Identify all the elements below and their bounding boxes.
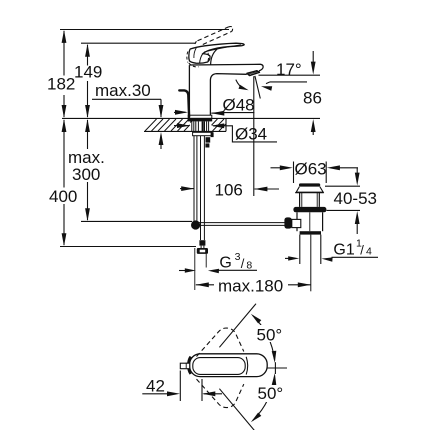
svg-text:Ø63: Ø63 (295, 159, 327, 178)
dimension 400 (hose length) (63, 120, 65, 188)
dimension max.30 (deck thickness) (92, 98, 161, 100)
G3/8 nut (197, 248, 208, 254)
svg-text:50°: 50° (257, 325, 283, 344)
lever neck front edge (211, 49, 217, 64)
supply hose (200, 136, 202, 240)
svg-text:G1: G1 (333, 241, 354, 258)
dimension 182 (height to raised lever) (63, 31, 65, 76)
top view handle rotated lower (dashed) (197, 379, 244, 408)
wire swing arc with arrow (236, 80, 244, 89)
svg-text:17°: 17° (276, 60, 302, 79)
svg-text:182: 182 (47, 75, 75, 94)
wire tilted stream line 17 deg (255, 76, 260, 99)
dimension 40-53 deck range (325, 185, 360, 187)
wire max.300 reference line (81, 220, 192, 222)
dimension 42 (179, 371, 181, 402)
dimension &#216;34 hole diameter (174, 125, 189, 127)
wire upper 50 deg arc (253, 316, 275, 361)
pop-up linkage blocks (206, 137, 211, 142)
svg-text:G: G (219, 254, 231, 271)
faucet base plinth (188, 115, 212, 118)
node outlet axis vertical line (253, 76, 255, 196)
pop-up waste assembly (299, 183, 320, 186)
svg-text:149: 149 (74, 63, 102, 82)
dimension &#216;48 base diameter (174, 111, 186, 113)
svg-text:Ø48: Ø48 (223, 96, 255, 115)
svg-text:3: 3 (235, 251, 241, 263)
dimension max.180 (196, 284, 311, 286)
dimension 106 outlet offset (180, 188, 194, 190)
dimension 149 (height to lever top) (87, 45, 89, 66)
svg-text:max.30: max.30 (95, 81, 151, 100)
horizontal actuating rod (199, 222, 285, 224)
lever handle raised (dashed) (198, 27, 229, 41)
dimension max.300 (pop-up rod length) (87, 120, 89, 149)
svg-text:/: / (360, 242, 364, 257)
wire 50 deg lower line (219, 389, 254, 430)
top view handle tab (180, 363, 189, 369)
svg-text:400: 400 (49, 187, 77, 206)
svg-text:max.180: max.180 (218, 277, 283, 296)
pop-up pull rod hook (179, 90, 189, 117)
wire lower 50 deg arc (253, 376, 275, 421)
pop-up knob and rod connector (284, 217, 291, 228)
svg-text:40-53: 40-53 (334, 189, 377, 208)
hose crimp end (199, 240, 205, 245)
aerator spout outlet, tilted 17 deg (247, 71, 259, 76)
top view handle rotated upper (dashed) (197, 328, 244, 357)
dimension &#216;63 flange diameter (293, 162, 295, 184)
mounting shank through deck (191, 121, 193, 131)
faucet body outline (188, 65, 190, 115)
wire 50 deg upper line (219, 304, 256, 348)
wire 400 reference line (60, 246, 196, 248)
svg-text:42: 42 (146, 376, 165, 395)
lever pivot dashed arcs (187, 52, 188, 63)
wire horizontal axis (267, 367, 288, 369)
svg-text:86: 86 (303, 89, 322, 108)
svg-text:300: 300 (72, 165, 100, 184)
ball joint (191, 220, 200, 229)
wire deck baseline (62, 117, 320, 119)
pop-up vertical rod (193, 136, 195, 221)
label G1 1/4 thread (285, 257, 294, 259)
svg-text:Ø34: Ø34 (235, 124, 267, 143)
lever handle solid (189, 43, 244, 63)
svg-text:4: 4 (366, 246, 372, 258)
top view handle solid (190, 354, 268, 377)
dimension 86 (spout outlet height) (259, 74, 321, 76)
label 50 deg upper (255, 325, 285, 342)
extension line below hose (194, 248, 196, 290)
wire top reference line (tip of raised lever) (60, 29, 229, 31)
svg-text:50°: 50° (258, 384, 284, 403)
node countertop deck slab (144, 130, 226, 132)
svg-text:8: 8 (246, 259, 252, 271)
label 50 deg lower (256, 385, 286, 402)
svg-text:/: / (241, 256, 245, 271)
backnut washer (193, 132, 213, 135)
label G3/8 thread (179, 270, 187, 272)
wire 149 reference line (top of lever) (81, 42, 195, 44)
svg-text:106: 106 (215, 180, 243, 199)
